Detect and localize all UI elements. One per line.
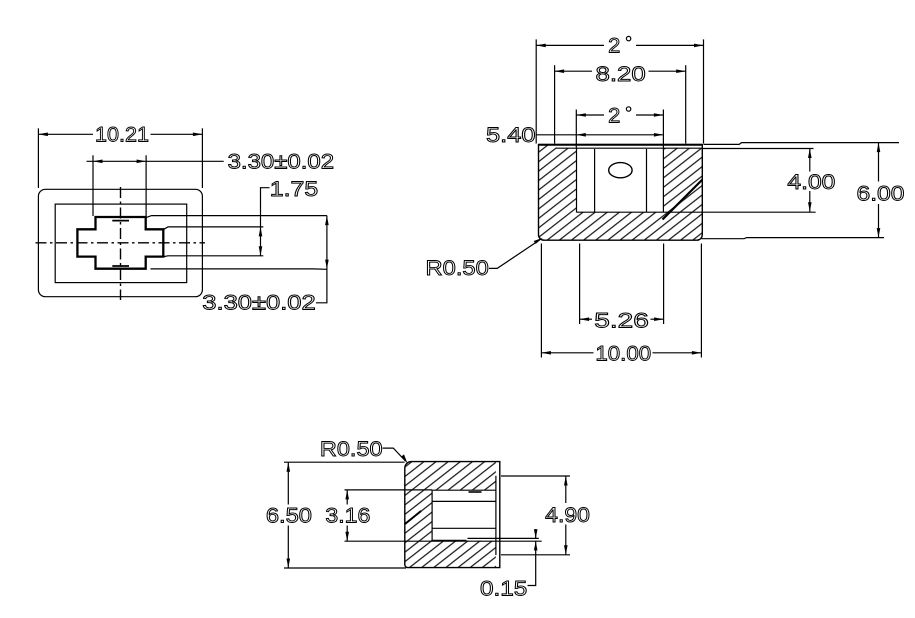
view3 cavity second line bbox=[432, 500, 496, 502]
dimension 5.40 line with leader to label bbox=[537, 133, 664, 137]
dimension 3.16 line bbox=[345, 490, 349, 541]
dimension 2deg small lines bbox=[576, 110, 663, 149]
dimension 6.00 bottom leader bbox=[702, 238, 885, 239]
view3 cavity top notch bbox=[469, 491, 482, 493]
view2 sleeve right line bbox=[646, 149, 648, 212]
dimension 3.16 top leader bbox=[345, 489, 433, 491]
view2 body outline bbox=[539, 145, 703, 241]
dimension 3.30±0.02 top lines bbox=[87, 155, 224, 216]
view1 inner face rectangle bbox=[55, 204, 187, 283]
dimension 5.26 lines bbox=[580, 244, 664, 325]
svg-text:R0.50: R0.50 bbox=[320, 437, 383, 461]
dimension 6.50 line bbox=[287, 462, 291, 568]
dimension 4.00 line bbox=[808, 149, 812, 212]
leader R0.50 view2 bbox=[489, 238, 543, 269]
svg-text:2: 2 bbox=[608, 104, 620, 128]
view1 outer rounded body outline bbox=[38, 189, 202, 296]
view2 sleeve left line bbox=[594, 149, 596, 212]
svg-text:1.75: 1.75 bbox=[270, 177, 318, 201]
svg-text:5.40: 5.40 bbox=[486, 123, 536, 147]
svg-text:3.16: 3.16 bbox=[325, 504, 370, 528]
view2 top edge (bold) bbox=[539, 144, 703, 146]
dimension 10.21 lines bbox=[38, 128, 202, 188]
view2 thick hatch diagonal in right block bbox=[663, 180, 703, 220]
view3 cavity third line bbox=[432, 527, 496, 529]
svg-text:4.90: 4.90 bbox=[545, 503, 590, 527]
view1 vertical center line bbox=[120, 187, 122, 300]
svg-text:3.30±0.02: 3.30±0.02 bbox=[228, 150, 335, 174]
view3 cavity top line bbox=[432, 489, 496, 491]
view3 contact upper line extended as 0.15 leader bbox=[468, 537, 539, 539]
view3 body outline bbox=[405, 462, 500, 568]
view3 hatch fill region bbox=[405, 462, 500, 568]
svg-text:3.30±0.02: 3.30±0.02 bbox=[202, 291, 315, 315]
dimension 6.00 line bbox=[877, 143, 881, 238]
dimension 10.00 lines bbox=[541, 244, 701, 358]
dimension 6.00 top leader bbox=[704, 143, 900, 145]
leader from cross lower step bbox=[164, 255, 263, 258]
svg-text:5.26: 5.26 bbox=[594, 309, 649, 333]
dimension 4.90 line bbox=[564, 476, 568, 555]
dimension 4.00 top leader bbox=[702, 148, 813, 150]
view2 oval hole bbox=[609, 163, 632, 178]
dimension 8.20 lines bbox=[555, 65, 686, 143]
svg-text:8.20: 8.20 bbox=[596, 62, 646, 86]
leader R0.50 view3 bbox=[383, 448, 408, 463]
view1 cross-shaped aperture (bold) bbox=[77, 217, 163, 269]
view1 slot mark bottom bbox=[112, 265, 129, 267]
view2 cavity bottom line extended as 4.00 leader bbox=[577, 211, 816, 213]
svg-text:10.21: 10.21 bbox=[95, 123, 149, 147]
dimension 3.30±0.02 bottom line with leader to label bbox=[316, 216, 329, 303]
svg-text:2: 2 bbox=[608, 33, 620, 57]
dimension 4.90 bottom leader bbox=[501, 554, 570, 556]
dimension 2deg top lines bbox=[536, 39, 703, 143]
view2 cavity right wall bbox=[662, 148, 664, 212]
svg-text:6.00: 6.00 bbox=[857, 182, 905, 206]
view3 cavity left wall bbox=[431, 490, 433, 540]
view3 thick hatch diagonal in left band bbox=[405, 511, 421, 524]
dimension 6.50 top leader bbox=[284, 461, 405, 463]
dimension 4.90 top leader bbox=[501, 475, 570, 477]
leader from cross upper step bbox=[164, 227, 263, 229]
svg-text:R0.50: R0.50 bbox=[426, 256, 489, 280]
leader from cross top edge bbox=[147, 216, 327, 218]
view2 cavity left wall bbox=[576, 148, 578, 212]
label 2deg small degree circle bbox=[626, 107, 630, 111]
view2 hatch fill region bbox=[539, 145, 703, 241]
leader from cross bottom edge bbox=[151, 268, 327, 270]
view3 flange inner line bbox=[495, 476, 497, 555]
dimension 1.75 line with leader to label bbox=[259, 188, 270, 256]
svg-text:4.00: 4.00 bbox=[787, 170, 835, 194]
svg-text:0.15: 0.15 bbox=[480, 577, 527, 601]
view3 contact lower line extended as 0.15 leader and 3.16 bottom leader bbox=[345, 540, 542, 542]
view2 inner lip line bbox=[556, 147, 702, 149]
view3 cavity bottom line bbox=[432, 539, 466, 541]
view1 slot mark top bbox=[112, 220, 129, 222]
dimension 6.50 bottom leader bbox=[284, 567, 406, 569]
view1 horizontal center line bbox=[36, 242, 206, 244]
svg-text:6.50: 6.50 bbox=[266, 504, 312, 528]
dimension 0.15 arrows and leader to label bbox=[528, 529, 538, 586]
svg-text:10.00: 10.00 bbox=[595, 342, 651, 366]
label 2deg top degree circle bbox=[626, 36, 630, 40]
